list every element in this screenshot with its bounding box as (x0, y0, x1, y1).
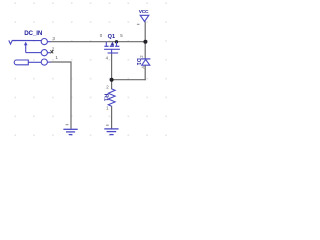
svg-text:A: A (140, 66, 145, 69)
wire: top rail DC_IN pin3 to VCC node (51, 41, 146, 43)
wire: resistor to ground (111, 106, 113, 129)
wire: DC_IN pin1 to ground (51, 62, 71, 129)
wire: gate to node (111, 53, 113, 89)
svg-text:1: 1 (55, 55, 58, 60)
svg-text:Q1: Q1 (108, 34, 115, 40)
no-ERC marker on pin 2 (50, 50, 53, 53)
power port VCC (139, 9, 149, 22)
svg-text:DC_IN: DC_IN (24, 30, 43, 37)
connector J1 DC_IN (9, 30, 51, 65)
svg-text:D1: D1 (135, 58, 141, 65)
wire: VCC drop to rail (144, 21, 146, 41)
junction at Q1 source on rail (115, 40, 118, 43)
wire: diode branch upper (144, 42, 146, 59)
svg-text:2: 2 (139, 55, 144, 58)
svg-text:5: 5 (120, 33, 123, 38)
svg-text:2: 2 (106, 84, 109, 89)
svg-text:VCC: VCC (139, 9, 149, 15)
transistor Q1 (P-MOSFET) (104, 34, 120, 53)
svg-text:1: 1 (106, 106, 109, 111)
tick near left ground (66, 124, 69, 125)
junction at VCC / rail (143, 40, 147, 44)
wire: diode branch lower (144, 66, 146, 81)
ground symbol (right) (104, 129, 118, 135)
svg-text:4: 4 (106, 56, 109, 61)
resistor R1 (103, 89, 115, 106)
junction at gate node / bottom wire (110, 78, 114, 82)
wire: bottom horizontal node (112, 79, 146, 81)
tick near VCC stub (137, 24, 140, 25)
svg-text:R1: R1 (103, 94, 109, 102)
ground symbol (left) (63, 129, 77, 134)
svg-text:3: 3 (52, 36, 55, 41)
svg-text:0: 0 (100, 33, 103, 38)
tick near right ground (106, 125, 109, 126)
diode D1 (135, 58, 151, 65)
